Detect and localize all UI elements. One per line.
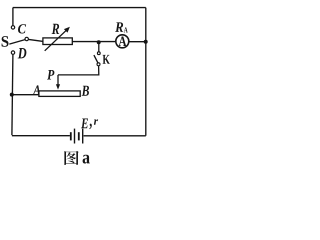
battery E,r: [70, 119, 98, 144]
slider P: [47, 70, 60, 90]
label RA: [115, 22, 128, 32]
caption 图 a: [64, 151, 89, 165]
switch S: [2, 36, 29, 47]
wire top rail: [13, 7, 146, 9]
wire K to slider P: [58, 66, 99, 75]
rheostat AB body: [39, 91, 80, 97]
junction at K top: [97, 40, 101, 44]
wire left rail to A terminal: [12, 94, 39, 96]
wire battery to right rail: [84, 135, 146, 137]
label A: [33, 85, 41, 94]
label B: [82, 86, 89, 96]
wire left drop to C: [12, 8, 14, 26]
node C: [11, 24, 26, 33]
wire left rail: [12, 55, 13, 136]
switch K: [94, 52, 110, 66]
wire junction down to K: [98, 43, 100, 52]
wire bottom left: [12, 135, 70, 137]
wire S pivot to R: [29, 39, 44, 41]
junction on left rail: [10, 93, 14, 97]
ammeter A: [116, 35, 129, 48]
wire ammeter to right rail: [129, 41, 146, 43]
wire R to ammeter: [72, 41, 115, 43]
wire right rail: [145, 8, 147, 136]
resistor R (rheostat): [43, 24, 72, 51]
node D: [11, 48, 26, 58]
junction at right rail: [144, 40, 148, 44]
